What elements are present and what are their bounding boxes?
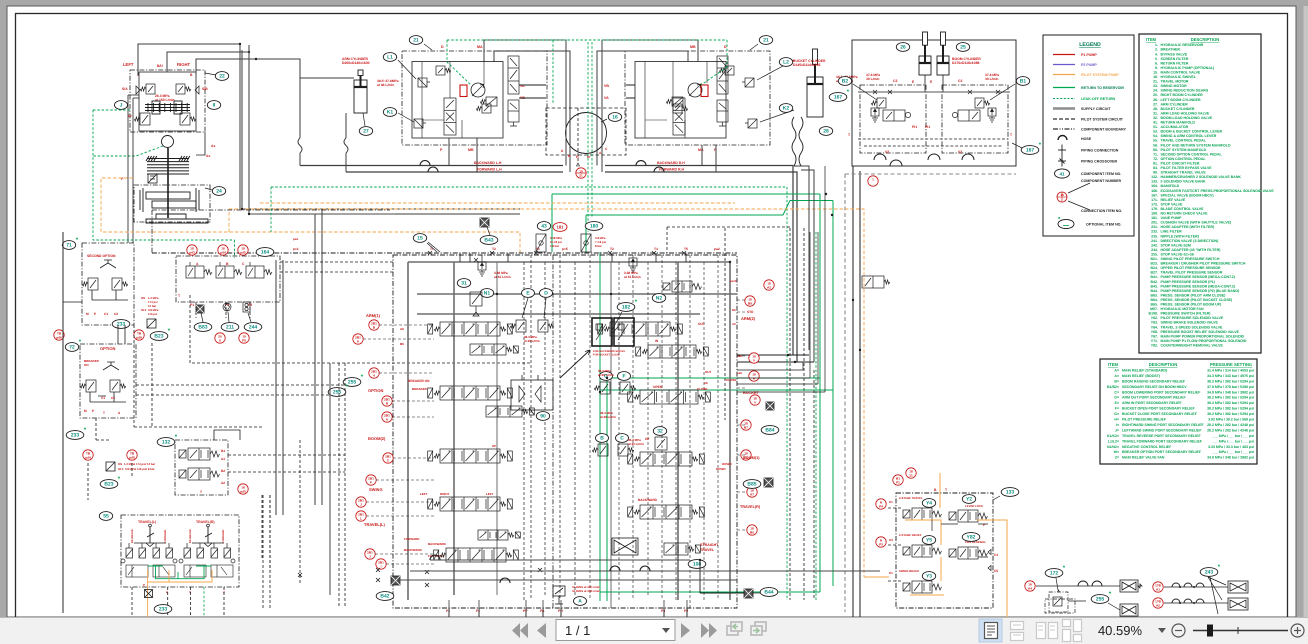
svg-text:A4: A4 bbox=[1028, 586, 1032, 590]
svg-text:VB: VB bbox=[604, 84, 609, 88]
svg-text:As: As bbox=[206, 154, 210, 158]
oval 167 left bbox=[829, 89, 850, 102]
svg-text:34.3MPa at 318 L/min: 34.3MPa at 318 L/min bbox=[572, 589, 600, 593]
oval C bbox=[616, 434, 629, 443]
zoom in button bbox=[1291, 624, 1304, 637]
svg-text:A8: A8 bbox=[704, 381, 708, 385]
manifold 164 bottom wires bbox=[196, 302, 250, 318]
oval 22 bbox=[215, 72, 228, 81]
svg-text:RIGHTWARD SWING PORT SECONDARY: RIGHTWARD SWING PORT SECONDARY RELIEF bbox=[1122, 423, 1205, 427]
svg-text:58.: 58. bbox=[1153, 143, 1158, 147]
negative control relief N1 bbox=[478, 262, 486, 276]
oval F bbox=[618, 372, 631, 381]
oval 108 bbox=[688, 560, 706, 569]
svg-text:PRESSURE SWITCH (FILTER): PRESSURE SWITCH (FILTER) bbox=[1161, 312, 1211, 316]
mcv bottom port drops bbox=[449, 608, 687, 617]
svg-text:ARM(1): ARM(1) bbox=[366, 313, 381, 318]
svg-text:BOOM(2): BOOM(2) bbox=[368, 436, 386, 441]
svg-text:D=: D= bbox=[1114, 396, 1119, 400]
svg-text:STOP VALVE-S2M: STOP VALVE-S2M bbox=[1161, 243, 1191, 247]
svg-text:21: 21 bbox=[579, 173, 583, 177]
orange pilot line swing bbox=[101, 178, 520, 253]
svg-text:Pi: Pi bbox=[576, 155, 579, 159]
boom cylinder 25 bbox=[937, 32, 949, 75]
svg-text:28.: 28. bbox=[1153, 107, 1158, 111]
svg-text:D: D bbox=[441, 45, 444, 49]
red circles below second option bbox=[54, 330, 64, 340]
svg-text:244: 244 bbox=[249, 325, 258, 331]
svg-text:STD: STD bbox=[747, 310, 754, 314]
svg-text:27: 27 bbox=[363, 129, 369, 135]
svg-text:C4: C4 bbox=[994, 553, 998, 557]
junction dots bbox=[241, 208, 243, 210]
svg-text:1.8 bar: 1.8 bar bbox=[550, 244, 560, 248]
arm2 spool bbox=[598, 322, 683, 336]
svg-text:3.92 MPa / 39.2 bar / 569 psi: 3.92 MPa / 39.2 bar / 569 psi bbox=[1208, 418, 1254, 422]
manifold 164 boundary bbox=[176, 256, 280, 302]
svg-text:LEGEND: LEGEND bbox=[1079, 42, 1101, 48]
svg-text:28: 28 bbox=[823, 129, 829, 135]
svg-text:Y2: Y2 bbox=[966, 497, 972, 503]
sensor B64 bbox=[766, 402, 774, 410]
svg-text:241.: 241. bbox=[1151, 239, 1158, 243]
svg-text:pd8: pd8 bbox=[129, 455, 135, 459]
svg-text:BOOM LOAD HOLDING VALVE: BOOM LOAD HOLDING VALVE bbox=[1161, 116, 1213, 120]
svg-text:ARM LOAD HOLDING VALVE: ARM LOAD HOLDING VALVE bbox=[1161, 111, 1210, 115]
travel pedal bottom wires bbox=[132, 587, 224, 617]
wire top bucket drops bbox=[794, 166, 814, 362]
travel pedal lever bbox=[147, 527, 154, 543]
svg-text:1.: 1. bbox=[1155, 43, 1158, 47]
svg-text:HOSE ADAPTER (WITH FILTER): HOSE ADAPTER (WITH FILTER) bbox=[1161, 225, 1215, 229]
svg-text:BACKWARD: BACKWARD bbox=[404, 548, 423, 552]
svg-text:S/A: S/A bbox=[122, 87, 128, 91]
svg-text:HYDRAULIC RESERVOIR: HYDRAULIC RESERVOIR bbox=[1161, 43, 1204, 47]
travel motor circle bbox=[471, 83, 485, 97]
svg-text:C1: C1 bbox=[889, 571, 893, 575]
svg-text:K1/K2=: K1/K2= bbox=[1107, 434, 1119, 438]
facing pages layout button bbox=[1037, 623, 1058, 639]
svg-text:31: 31 bbox=[461, 281, 467, 287]
second option port ovals bbox=[112, 320, 130, 329]
svg-text:B23: B23 bbox=[104, 482, 113, 488]
green dashed diagonal right motor bbox=[701, 67, 727, 85]
svg-text:BREAKER: BREAKER bbox=[412, 387, 428, 391]
svg-text:164.: 164. bbox=[1151, 184, 1158, 188]
svg-text:Y64.: Y64. bbox=[1151, 325, 1158, 329]
svg-text:PILOT PRESSURE RELIEF: PILOT PRESSURE RELIEF bbox=[1122, 418, 1167, 422]
svg-text:28.2 MPa / 282 bar / 4248 psi: 28.2 MPa / 282 bar / 4248 psi bbox=[1207, 428, 1254, 432]
svg-text:TRAVEL(L): TRAVEL(L) bbox=[364, 522, 385, 527]
svg-text:LEFT: LEFT bbox=[486, 492, 494, 496]
svg-text:31.: 31. bbox=[1153, 111, 1158, 115]
svg-text:RIGHT BOOM CYLINDER: RIGHT BOOM CYLINDER bbox=[1161, 93, 1204, 97]
swing motor check valve left bbox=[136, 86, 140, 94]
svg-text:SWING MOTOR: SWING MOTOR bbox=[1161, 84, 1188, 88]
svg-text:BREAKER ON: BREAKER ON bbox=[408, 379, 430, 383]
svg-text:DIRECTION VALVE (2-DIRECTION): DIRECTION VALVE (2-DIRECTION) bbox=[1161, 239, 1219, 243]
swing motor pilot valve left bbox=[140, 84, 155, 94]
svg-text:BK BRAKE: BK BRAKE bbox=[131, 529, 134, 543]
right scrollbar track bbox=[1297, 6, 1308, 617]
svg-text:2-STAGE RELIEF: 2-STAGE RELIEF bbox=[899, 533, 922, 537]
green return bottom bbox=[600, 591, 820, 593]
hose arcs bottom bbox=[610, 566, 620, 571]
svg-text:SECONDARY RELIEF ON BOOM HBCV: SECONDARY RELIEF ON BOOM HBCV bbox=[1122, 385, 1187, 389]
boom cylinder 26 bbox=[919, 32, 931, 75]
oval 180 bbox=[585, 222, 603, 231]
boom hbcv left poppet bbox=[871, 98, 886, 108]
swing valve plate bbox=[145, 101, 190, 114]
svg-text:TRAVEL(R): TRAVEL(R) bbox=[196, 520, 215, 524]
svg-text:pc1: pc1 bbox=[293, 247, 299, 251]
svg-text:38.2 MPa / 382 bar / 5294 psi: 38.2 MPa / 382 bar / 5294 psi bbox=[1207, 401, 1254, 405]
svg-text:43: 43 bbox=[541, 224, 547, 230]
svg-text:pa9: pa9 bbox=[737, 371, 742, 375]
sensor box near B85 bbox=[764, 478, 773, 487]
bowtie 243 b bbox=[1228, 598, 1248, 610]
red circles below option bbox=[83, 450, 93, 460]
swivel pilot dashed wire bbox=[577, 108, 579, 163]
hose arcs LH bbox=[420, 161, 430, 166]
svg-text:B=: B= bbox=[1114, 379, 1119, 383]
orange pilot bus lower bbox=[229, 209, 864, 577]
boom load holding valve 32 bbox=[655, 437, 667, 450]
manifold 164 valve C bbox=[246, 262, 272, 278]
svg-text:TRAVEL PILOT PRESSURE SENSOR: TRAVEL PILOT PRESSURE SENSOR bbox=[1161, 271, 1223, 275]
travel motor inner links bbox=[422, 62, 484, 139]
svg-text:BUCKET OPEN PORT SECONDARY REL: BUCKET OPEN PORT SECONDARY RELIEF bbox=[1122, 407, 1196, 411]
svg-text:41.: 41. bbox=[1153, 121, 1158, 125]
svg-text:3.33 MPa / 33.3 bar / 483 psi: 3.33 MPa / 33.3 bar / 483 psi bbox=[1208, 445, 1254, 449]
svg-text:4: 4 bbox=[373, 373, 375, 377]
svg-text:233: 233 bbox=[159, 607, 168, 613]
svg-text:T2: T2 bbox=[610, 247, 614, 251]
svg-text:at 20 L/min: at 20 L/min bbox=[600, 415, 616, 419]
svg-text:LEVER LOCK: LEVER LOCK bbox=[965, 504, 983, 508]
arm load holding valve 31 bbox=[470, 292, 482, 316]
svg-text:at 20 L/min: at 20 L/min bbox=[628, 442, 644, 446]
svg-text:84.: 84. bbox=[1153, 166, 1158, 170]
svg-text:L1/L2=: L1/L2= bbox=[1108, 439, 1119, 443]
stop valve 172 group bbox=[1045, 565, 1066, 578]
L1 solenoid bbox=[418, 78, 430, 87]
svg-text:26: 26 bbox=[900, 45, 906, 51]
svg-text:P1: P1 bbox=[190, 303, 194, 307]
svg-text:32: 32 bbox=[657, 429, 663, 435]
travel speed solenoid bbox=[666, 97, 683, 106]
continuous layout button bbox=[1011, 622, 1024, 641]
svg-text:211: 211 bbox=[226, 325, 234, 331]
travel pedal lever bbox=[205, 527, 212, 543]
bucket spool bbox=[628, 390, 711, 404]
svg-text:25.: 25. bbox=[1153, 93, 1158, 97]
svg-text:COMPONENT BOUNDARY: COMPONENT BOUNDARY bbox=[1081, 128, 1127, 132]
svg-text:ACCUMULATOR: ACCUMULATOR bbox=[1161, 125, 1189, 129]
oval A relief bbox=[574, 597, 587, 606]
next page button bbox=[681, 623, 690, 638]
svg-text:71.: 71. bbox=[1153, 152, 1158, 156]
svg-text:PUMP PRESSURE SENSOR (MEGA-CON: PUMP PRESSURE SENSOR (MEGA-CONT.3) bbox=[1161, 284, 1235, 288]
svg-text:B44: B44 bbox=[764, 590, 773, 596]
svg-text:PIPING CROSSOVER: PIPING CROSSOVER bbox=[1081, 160, 1118, 164]
corridor horizontal bundle to valve block bbox=[737, 355, 814, 362]
svg-text:B1/B2=: B1/B2= bbox=[1107, 385, 1119, 389]
svg-text:B6: B6 bbox=[400, 342, 404, 346]
prev view button bbox=[727, 622, 742, 635]
svg-text:DOWN: DOWN bbox=[716, 467, 726, 471]
svg-text:L: L bbox=[360, 516, 362, 520]
svg-text:6.: 6. bbox=[1155, 61, 1158, 65]
svg-text:SWING REDUCTION GEARS: SWING REDUCTION GEARS bbox=[1161, 89, 1209, 93]
svg-text:COMPONENT ITEM NO.: COMPONENT ITEM NO. bbox=[1081, 172, 1121, 176]
svg-text:SPECIAL VALVE (BOOM HBCV): SPECIAL VALVE (BOOM HBCV) bbox=[1161, 193, 1214, 197]
oval D bbox=[540, 289, 553, 298]
red connection circle 19 bbox=[576, 168, 586, 178]
svg-text:PILOT AND RETURN SYSTEM MANIFO: PILOT AND RETURN SYSTEM MANIFOLD bbox=[1161, 143, 1231, 147]
svg-text:RETURN TO RESERVOIR: RETURN TO RESERVOIR bbox=[1081, 86, 1124, 90]
arm cylinder 27 bbox=[354, 70, 367, 113]
svg-text:41: 41 bbox=[1059, 171, 1065, 176]
svg-text:T: T bbox=[200, 490, 202, 494]
item description table bbox=[1139, 34, 1261, 353]
svg-text:243: 243 bbox=[1205, 570, 1214, 576]
svg-text:OPTION CONTROL PEDAL: OPTION CONTROL PEDAL bbox=[1161, 157, 1207, 161]
svg-text:27.: 27. bbox=[1153, 102, 1158, 106]
green dashed leak-off left bbox=[93, 110, 235, 258]
legend pilot system pump bbox=[1053, 74, 1075, 76]
svg-text:D145xD114x1285: D145xD114x1285 bbox=[793, 63, 820, 67]
oval 15 bbox=[413, 234, 426, 243]
red circles below 164 fittings bbox=[215, 333, 225, 343]
svg-text:N1: N1 bbox=[484, 291, 491, 297]
svg-text:40.59%: 40.59% bbox=[1098, 623, 1143, 638]
svg-text:M07.: M07. bbox=[1150, 307, 1158, 311]
red circles 133 left bbox=[876, 499, 886, 509]
svg-text:B2: B2 bbox=[221, 469, 225, 473]
option valves bbox=[80, 380, 96, 392]
svg-text:J=: J= bbox=[1115, 428, 1119, 432]
wire swing to pilot bus A bbox=[138, 44, 520, 209]
right dashed connectors bbox=[737, 299, 746, 301]
svg-text:T2: T2 bbox=[492, 247, 496, 251]
green return mid horizontals bbox=[600, 378, 833, 390]
svg-text:HAMMER/CRUSHER 2 SOLENOID VALV: HAMMER/CRUSHER 2 SOLENOID VALVE BANK bbox=[1161, 175, 1242, 179]
svg-text:1 / 1: 1 / 1 bbox=[565, 623, 590, 638]
svg-text:SWING: SWING bbox=[369, 487, 383, 492]
green dashed leak-off long bbox=[271, 187, 787, 600]
svg-text:B42: B42 bbox=[380, 594, 389, 600]
oval B84 bbox=[761, 426, 779, 435]
legend pilot system circuit bbox=[1053, 118, 1075, 120]
svg-text:255.: 255. bbox=[1151, 253, 1158, 257]
svg-text:A9: A9 bbox=[732, 322, 736, 326]
svg-text:5 SOLENOID VALVE BANK: 5 SOLENOID VALVE BANK bbox=[1161, 180, 1206, 184]
pump sensor B43 bbox=[480, 218, 489, 227]
oval 255 b bbox=[328, 384, 349, 397]
bowtie 243 a bbox=[1228, 581, 1248, 593]
legend return to reservoir bbox=[1053, 87, 1075, 89]
swing reduction gear shafts bbox=[140, 186, 208, 223]
legend piping connection bbox=[1061, 145, 1063, 156]
svg-text:SWING BRAKE SOLENOID VALVE: SWING BRAKE SOLENOID VALVE bbox=[1161, 321, 1219, 325]
oval 24 bbox=[212, 187, 225, 196]
vertical feed pair B bbox=[315, 209, 322, 505]
svg-text:167: 167 bbox=[1026, 148, 1035, 154]
green dashed pedal drop bbox=[203, 587, 205, 617]
legend hose bbox=[1058, 136, 1067, 141]
svg-text:OUT: OUT bbox=[698, 322, 705, 326]
oval 27 bbox=[359, 127, 372, 136]
manifold 164 valve A bbox=[186, 262, 212, 278]
option pedal bbox=[103, 362, 119, 370]
svg-text:P: P bbox=[143, 583, 145, 587]
svg-text:B2: B2 bbox=[842, 79, 849, 85]
svg-text:RETURN MANIFOLD: RETURN MANIFOLD bbox=[1161, 121, 1196, 125]
svg-text:PILOT CIRCUIT FILTER: PILOT CIRCUIT FILTER bbox=[1161, 162, 1200, 166]
wire mcv left entry bbox=[345, 262, 393, 272]
svg-text:255: 255 bbox=[333, 390, 342, 396]
mcv left dashed connectors bbox=[379, 324, 434, 326]
svg-text:D170xD118x1088: D170xD118x1088 bbox=[952, 61, 979, 65]
travel relief valves bbox=[719, 66, 734, 75]
svg-text:MAIN RELIEF VALVE FAN: MAIN RELIEF VALVE FAN bbox=[1122, 456, 1165, 460]
svg-text:SUPPLY CIRCUIT: SUPPLY CIRCUIT bbox=[1081, 107, 1111, 111]
svg-text:231.: 231. bbox=[1151, 225, 1158, 229]
travel pedal spring boxes bbox=[126, 565, 175, 577]
oval 244 bbox=[244, 323, 262, 332]
svg-text:16.: 16. bbox=[1153, 75, 1158, 79]
svg-text:P1 PUMP: P1 PUMP bbox=[1081, 53, 1097, 57]
hydraulic swivel boundary bbox=[546, 108, 626, 155]
svg-text:172.: 172. bbox=[1151, 202, 1158, 206]
travel pedal valves bbox=[126, 543, 133, 558]
svg-text:COUNTERWEIGHT REMOVAL VALVE: COUNTERWEIGHT REMOVAL VALVE bbox=[1161, 344, 1224, 348]
svg-text:23.: 23. bbox=[1153, 84, 1158, 88]
green return top horizontal bbox=[552, 194, 833, 215]
svg-text:31.4 MPa / 314 bar / 4553 psi: 31.4 MPa / 314 bar / 4553 psi bbox=[1207, 369, 1254, 373]
boom block bottom hoses bbox=[874, 154, 974, 166]
svg-text:I: I bbox=[381, 564, 382, 568]
svg-text:B0: B0 bbox=[750, 530, 754, 534]
travelL sub bbox=[478, 530, 520, 540]
svg-text:pd0: pd0 bbox=[240, 489, 246, 493]
svg-text:167.: 167. bbox=[1151, 193, 1158, 197]
svg-text:MAIN CONTROL VALVE: MAIN CONTROL VALVE bbox=[1161, 71, 1201, 75]
oval 133 bbox=[1001, 488, 1019, 497]
svg-text:BOOM LOWERING PORT SECONDARY R: BOOM LOWERING PORT SECONDARY RELIEF bbox=[1122, 390, 1201, 394]
svg-text:P3: P3 bbox=[661, 609, 665, 613]
travel pedal green links bbox=[156, 565, 205, 579]
svg-text:LEFTWARD SWING PORT SECONDARY: LEFTWARD SWING PORT SECONDARY RELIEF bbox=[1122, 428, 1202, 432]
travel relief valves bbox=[436, 66, 451, 75]
svg-text:C1: C1 bbox=[104, 312, 108, 316]
boom hbcv right boundary 167 bbox=[942, 85, 1008, 153]
svg-text:PILOT SYSTEM CIRCUIT: PILOT SYSTEM CIRCUIT bbox=[1081, 118, 1124, 122]
travelL spool bbox=[434, 548, 519, 562]
wire bundle right corridor heading left bbox=[737, 370, 825, 392]
svg-text:MB: MB bbox=[690, 45, 696, 49]
svg-text:55: 55 bbox=[103, 514, 109, 520]
arm2 E D pilot valves bbox=[510, 320, 526, 332]
boom hbcv right poppet bbox=[975, 98, 990, 108]
travel brake valve bbox=[717, 56, 728, 126]
svg-text:90: 90 bbox=[540, 414, 546, 420]
svg-text:90.: 90. bbox=[1153, 171, 1158, 175]
red connection circle 1 bbox=[868, 176, 878, 186]
svg-text:P2: P2 bbox=[684, 609, 688, 613]
green dashed travel boundary bbox=[447, 40, 727, 104]
svg-text:BACKWARD: BACKWARD bbox=[638, 498, 658, 502]
svg-text:Y63.: Y63. bbox=[1151, 321, 1158, 325]
oval Y82 bbox=[962, 533, 980, 542]
svg-text:72: 72 bbox=[69, 345, 75, 351]
svg-text:38.2 MPa / 382 bar / 5294 psi: 38.2 MPa / 382 bar / 5294 psi bbox=[1207, 379, 1254, 383]
svg-text:C: C bbox=[620, 436, 624, 442]
oval 164 bbox=[256, 248, 274, 257]
pilot dashed box upper bbox=[667, 227, 790, 420]
straight travel box 90 bbox=[511, 375, 553, 410]
swing motor relief left bbox=[134, 113, 150, 125]
svg-text:SWING & ARM CONTROL LEVER: SWING & ARM CONTROL LEVER bbox=[1161, 134, 1217, 138]
mcv section boundary bbox=[552, 255, 554, 608]
svg-text:A6: A6 bbox=[400, 327, 404, 331]
svg-text:A2: A2 bbox=[767, 285, 771, 289]
svg-text:71: 71 bbox=[66, 243, 72, 249]
svg-text:C2: C2 bbox=[958, 79, 962, 83]
relief 255 block bbox=[1045, 590, 1075, 613]
svg-text:OPTION: OPTION bbox=[100, 346, 115, 351]
swing motor pilot valve right bbox=[176, 84, 191, 94]
bowtie 172 bbox=[1120, 580, 1138, 592]
pressure setting table bbox=[1100, 359, 1257, 464]
svg-text:M: M bbox=[84, 409, 87, 413]
mcv inner rail verticals bbox=[524, 255, 575, 600]
svg-text:K1: K1 bbox=[387, 110, 394, 116]
svg-text:D200xD140x1630: D200xD140x1630 bbox=[342, 61, 370, 65]
svg-text:A1: A1 bbox=[221, 457, 225, 461]
svg-text:233: 233 bbox=[71, 433, 80, 439]
svg-text:180: 180 bbox=[590, 224, 599, 230]
svg-text:W=: W= bbox=[1114, 450, 1119, 454]
svg-text:H=: H= bbox=[1114, 418, 1119, 422]
direction valve 241 right bbox=[862, 276, 890, 288]
svg-text:pc5: pc5 bbox=[562, 247, 568, 251]
oval 25 bbox=[956, 43, 969, 52]
wire bottom left risers bbox=[262, 440, 300, 583]
svg-text:Y82.: Y82. bbox=[1151, 344, 1158, 348]
oval 31 bbox=[457, 279, 470, 288]
fitting 211 bbox=[223, 303, 231, 311]
svg-text:34.8 MPa / 348 bar / 3982 psi: 34.8 MPa / 348 bar / 3982 psi bbox=[1207, 390, 1254, 394]
svg-text:P1: P1 bbox=[476, 609, 480, 613]
svg-text:21: 21 bbox=[909, 473, 913, 477]
legend component item no bbox=[1055, 169, 1070, 178]
pilot manifold 60 dashed boundary bbox=[190, 295, 530, 363]
svg-text:235.: 235. bbox=[1151, 234, 1158, 238]
travel counterbalance spool bbox=[673, 98, 685, 135]
wire mid risers bbox=[460, 253, 686, 262]
svg-text:B23.: B23. bbox=[1151, 262, 1159, 266]
hoses 243 bbox=[1164, 587, 1228, 603]
dashed box pilot manifold 58 bbox=[152, 210, 390, 253]
wire verticals bucket lines bbox=[803, 166, 825, 392]
oval B83 bbox=[194, 323, 212, 332]
svg-text:NEGATIVE CONTROL RELIEF: NEGATIVE CONTROL RELIEF bbox=[1122, 445, 1172, 449]
travel pedal platform bbox=[134, 543, 166, 547]
label 15 pointer bbox=[427, 243, 437, 252]
oval 28 bbox=[819, 127, 832, 136]
